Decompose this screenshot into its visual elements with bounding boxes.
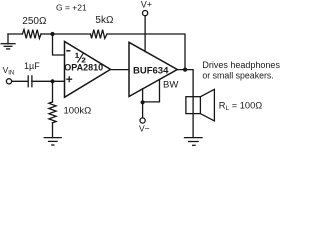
resistor R2 5k ohm zigzag [91, 30, 108, 39]
junction node B dot [50, 79, 54, 83]
wire V- stub from U2 bottom edge [142, 89, 144, 118]
ground G2 [44, 138, 61, 145]
wire V+ to U2 top edge [144, 16, 146, 52]
ground G3 [185, 138, 203, 146]
op-amp plus sign [66, 76, 72, 82]
resistor R1 250 ohm zigzag [22, 30, 41, 39]
svg-text:or small speakers.: or small speakers. [202, 71, 273, 81]
wire U1 output to U2 input [111, 69, 130, 71]
svg-text:BUF634: BUF634 [133, 66, 169, 77]
svg-text:Drives headphones: Drives headphones [202, 60, 280, 70]
svg-text:RL = 100Ω: RL = 100Ω [219, 101, 262, 113]
wire BW stub to V- node [143, 80, 160, 102]
svg-text:G = +21: G = +21 [56, 3, 87, 13]
junction node A dot [50, 32, 54, 36]
junction output node dot [183, 68, 187, 72]
feedback wire R2 to output node [107, 34, 185, 70]
op-amp U1 OPA2810 triangle [65, 42, 111, 98]
V+ terminal circle [143, 11, 148, 16]
svg-text:250Ω: 250Ω [22, 16, 47, 27]
buffer U2 BUF634 triangle [129, 42, 177, 96]
wire ground to R1 [8, 33, 22, 35]
svg-text:BW: BW [163, 80, 178, 91]
wire node A to R2 [53, 33, 91, 35]
wire R3 to ground G2 [52, 123, 54, 138]
ground G1 top-left [1, 34, 15, 49]
wire node B down to R3 [52, 81, 54, 102]
wire R1 to node A [41, 33, 53, 35]
wire C1 to noninverting input [32, 80, 65, 82]
op-amp minus sign [66, 50, 70, 52]
junction V- node dot [141, 100, 145, 104]
svg-text:1µF: 1µF [24, 61, 40, 71]
wire node A down to inverting input [53, 34, 65, 55]
input terminal VIN circle [6, 79, 11, 84]
resistor R3 100k ohm vertical zigzag [49, 102, 56, 123]
svg-text:V−: V− [139, 124, 150, 134]
svg-text:5kΩ: 5kΩ [95, 15, 114, 26]
speaker LS1 box [186, 97, 201, 114]
V- terminal circle [140, 118, 145, 123]
wire VIN to C1 [12, 80, 28, 82]
svg-text:100kΩ: 100kΩ [64, 106, 92, 117]
svg-text:V+: V+ [141, 0, 152, 9]
wire U2 output to speaker [177, 70, 193, 138]
svg-text:OPA2810: OPA2810 [64, 63, 103, 73]
speaker LS1 horn [200, 89, 214, 121]
capacitor C1 1uF plates [27, 76, 29, 87]
